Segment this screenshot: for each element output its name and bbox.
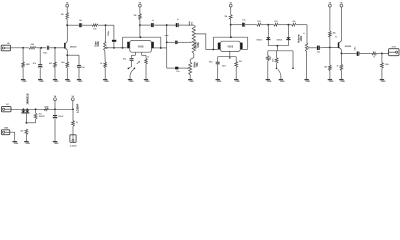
svg-text:1k: 1k	[147, 57, 149, 59]
svg-text:GND: GND	[39, 81, 44, 83]
svg-text:100k: 100k	[300, 35, 303, 41]
svg-text:1N914: 1N914	[277, 38, 282, 41]
svg-text:10k: 10k	[191, 22, 193, 25]
svg-text:GND: GND	[217, 81, 222, 83]
svg-text:1N4733: 1N4733	[39, 115, 45, 118]
svg-text:100n: 100n	[209, 61, 213, 63]
svg-text:1M: 1M	[61, 14, 64, 16]
svg-text:GND: GND	[129, 81, 134, 83]
svg-text:2u2: 2u2	[81, 67, 84, 69]
svg-text:2N5088: 2N5088	[345, 46, 352, 48]
svg-text:100uF: 100uF	[58, 116, 64, 118]
svg-text:100k: 100k	[385, 64, 389, 66]
svg-text:2M2: 2M2	[26, 64, 30, 66]
svg-text:22uF: 22uF	[222, 65, 226, 67]
svg-text:100R: 100R	[44, 106, 49, 108]
svg-text:GND: GND	[329, 81, 334, 83]
svg-text:GND: GND	[14, 143, 19, 145]
svg-text:2N5088: 2N5088	[70, 47, 77, 49]
svg-text:4558: 4558	[227, 44, 233, 48]
svg-text:100k: 100k	[97, 41, 100, 47]
svg-text:GND: GND	[22, 81, 27, 83]
svg-text:GND: GND	[267, 81, 272, 83]
svg-text:GND: GND	[235, 81, 240, 83]
svg-text:5V1: 5V1	[39, 113, 42, 115]
svg-text:LC08AF: LC08AF	[77, 103, 80, 113]
svg-text:GND: GND	[25, 143, 30, 145]
svg-text:1N914: 1N914	[256, 38, 261, 41]
svg-text:GND: GND	[189, 81, 194, 83]
svg-text:100k: 100k	[197, 42, 200, 48]
svg-text:4558: 4558	[138, 44, 144, 48]
svg-text:T1: T1	[335, 37, 337, 39]
svg-text:1k: 1k	[373, 57, 375, 59]
svg-text:100n: 100n	[108, 30, 110, 36]
svg-text:GND: GND	[280, 81, 285, 83]
svg-text:1M: 1M	[224, 16, 227, 18]
svg-text:1k5: 1k5	[257, 21, 260, 23]
svg-text:50k: 50k	[196, 62, 199, 67]
svg-text:1k5: 1k5	[274, 21, 277, 23]
svg-text:GND: GND	[340, 81, 345, 83]
svg-text:1M: 1M	[134, 15, 137, 17]
svg-text:GND: GND	[78, 81, 83, 83]
svg-text:1k: 1k	[76, 122, 78, 124]
svg-text:9k1: 9k1	[49, 63, 52, 65]
svg-text:2k2: 2k2	[20, 130, 23, 132]
svg-text:4k7: 4k7	[239, 60, 242, 63]
svg-text:GND: GND	[104, 81, 109, 83]
svg-text:GND: GND	[145, 81, 150, 83]
svg-text:GND: GND	[306, 81, 311, 83]
svg-text:10u: 10u	[354, 46, 356, 50]
svg-text:5k6: 5k6	[61, 62, 64, 64]
svg-text:GND: GND	[66, 81, 71, 83]
svg-text:S-JACK: S-JACK	[70, 145, 77, 148]
svg-text:1N4001S: 1N4001S	[25, 93, 29, 104]
svg-text:5k6: 5k6	[273, 59, 275, 62]
svg-text:GND: GND	[54, 81, 59, 83]
svg-text:GND: GND	[54, 143, 59, 145]
svg-text:GND: GND	[381, 81, 386, 83]
